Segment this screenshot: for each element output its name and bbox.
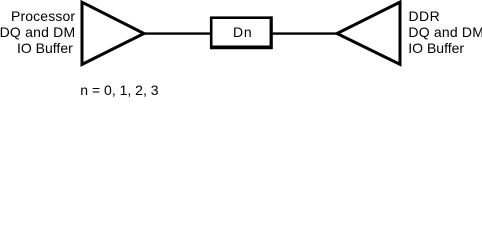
svg-text:Processor: Processor <box>11 8 75 24</box>
svg-text:DQ and DM: DQ and DM <box>0 24 75 40</box>
svg-text:IO Buffer: IO Buffer <box>17 40 73 56</box>
svg-text:n = 0, 1, 2, 3: n = 0, 1, 2, 3 <box>80 82 158 98</box>
svg-text:DQ and DM: DQ and DM <box>408 24 482 40</box>
svg-text:DDR: DDR <box>409 8 441 24</box>
svg-text:Dn: Dn <box>233 24 252 40</box>
svg-text:IO Buffer: IO Buffer <box>408 40 464 56</box>
